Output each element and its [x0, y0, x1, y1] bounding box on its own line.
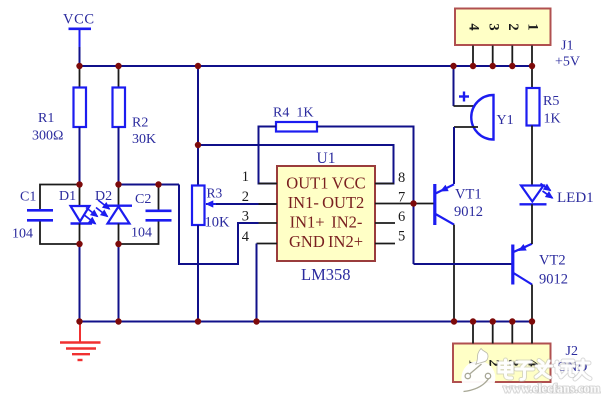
wire D2 node to ground bus — [118, 244, 120, 322]
wire C2 bottom lead — [119, 222, 159, 245]
capacitor C2 — [131, 192, 172, 241]
resistor R5 — [527, 88, 561, 127]
wire VT2 collector to ground bus — [531, 285, 533, 322]
svg-text:VT1: VT1 — [455, 187, 482, 203]
photodiode D1 — [59, 189, 98, 224]
svg-text:R3: R3 — [207, 186, 223, 201]
wire D1 bottom lead — [79, 224, 81, 245]
svg-text:30K: 30K — [132, 132, 156, 147]
wire VCC stem — [79, 47, 81, 66]
svg-text:300Ω: 300Ω — [32, 129, 63, 144]
wire J1 pin3 lead — [492, 46, 494, 67]
svg-text:10K: 10K — [205, 215, 231, 231]
wire D2 node to C2 top — [119, 184, 180, 186]
svg-text:www.elecfans.com: www.elecfans.com — [503, 382, 601, 396]
svg-text:U1: U1 — [317, 150, 336, 167]
svg-text:+5V: +5V — [555, 55, 580, 70]
wire D1 node to ground bus — [79, 244, 81, 322]
potentiometer R3 — [192, 186, 230, 231]
wire J2 pin4 lead — [531, 322, 533, 344]
svg-text:R1: R1 — [38, 111, 54, 126]
pin 3 stub — [259, 222, 278, 224]
svg-text:OUT1 VCC: OUT1 VCC — [286, 174, 365, 193]
wire C2 node down to IN1+ run — [179, 185, 259, 265]
svg-text:D2: D2 — [95, 189, 112, 204]
wire R4 right lead down to VT bases — [317, 127, 414, 265]
wire R2 bottom to node — [118, 127, 120, 185]
svg-text:5: 5 — [398, 229, 405, 245]
pin 6 stub — [375, 222, 395, 224]
svg-text:104: 104 — [131, 226, 152, 241]
resistor R1 — [32, 88, 86, 144]
wire R4 left lead to pin 1 — [259, 127, 278, 184]
svg-text:3: 3 — [242, 209, 249, 225]
pin 8 stub — [375, 183, 394, 185]
svg-text:J2: J2 — [566, 344, 578, 359]
svg-text:Y1: Y1 — [497, 113, 514, 128]
svg-text:1: 1 — [242, 169, 249, 185]
wire bus to Y1 top pin — [453, 66, 455, 106]
wire J1 pin1 to R5 — [531, 66, 533, 89]
wire GND pin 4 to ground bus — [256, 244, 258, 322]
wire D2 bottom lead — [118, 224, 120, 245]
wire VCC branch to pin 8 — [198, 145, 394, 184]
svg-text:LED1: LED1 — [557, 190, 594, 206]
svg-text:VCC: VCC — [63, 12, 95, 28]
watermark chinese text — [499, 360, 590, 380]
wire Y1 bottom pin to VT1 emitter — [454, 126, 478, 128]
svg-text:8: 8 — [398, 170, 405, 186]
VCC power symbol — [63, 12, 95, 48]
photodiode D2 — [95, 189, 132, 224]
svg-text:104: 104 — [12, 227, 33, 242]
wire R1 top lead — [79, 66, 81, 88]
svg-text:J1: J1 — [561, 39, 573, 54]
buzzer Y1 — [459, 92, 514, 140]
wire J2 pin2 lead — [492, 322, 494, 344]
svg-text:C2: C2 — [135, 192, 151, 207]
svg-text:4: 4 — [242, 229, 250, 245]
svg-text:6: 6 — [398, 209, 405, 225]
watermark logo circle — [461, 349, 495, 396]
wiper arrow R3 — [207, 203, 217, 205]
svg-text:VT2: VT2 — [539, 253, 566, 269]
op-amp U1 LM358 — [277, 150, 375, 284]
svg-text:7: 7 — [398, 190, 405, 206]
wire VT1 base — [414, 203, 434, 205]
wire VT2 base run — [414, 263, 512, 265]
watermark url text — [503, 382, 601, 396]
resistor R2 — [113, 88, 157, 148]
svg-text:R2: R2 — [132, 116, 148, 131]
pin 7 stub — [375, 203, 414, 205]
svg-text:1K: 1K — [544, 112, 561, 127]
wire R3 wiper to pin 2 — [206, 203, 277, 205]
resistor R4 — [273, 106, 317, 132]
pin 2 stub — [259, 203, 278, 205]
wire D1 top lead — [79, 185, 81, 207]
LED LED1 — [520, 184, 594, 207]
capacitor C1 — [12, 190, 53, 242]
svg-text:R4 1K: R4 1K — [273, 106, 313, 121]
wire J1 pin4 lead — [472, 46, 474, 67]
svg-text:9012: 9012 — [454, 204, 483, 220]
svg-text:IN1+ IN2-: IN1+ IN2- — [290, 213, 363, 232]
transistor VT2 — [513, 244, 568, 288]
svg-text:GND IN2+: GND IN2+ — [289, 232, 363, 251]
svg-text:C1: C1 — [20, 190, 36, 205]
pin 1 stub — [259, 183, 278, 185]
transistor VT1 — [435, 184, 483, 225]
wire VT1 collector to ground bus — [453, 225, 455, 322]
wire R5 bottom to LED1 — [531, 126, 533, 186]
wire ground bus — [80, 321, 533, 323]
wire J2 pin1 lead — [472, 322, 474, 344]
wire C1 bottom bracket — [40, 222, 80, 245]
wire C2 top lead — [158, 185, 160, 211]
wire R1 bottom to node — [79, 127, 81, 185]
wire J2 pin3 lead — [511, 322, 513, 344]
svg-text:2: 2 — [242, 189, 249, 205]
pin 4 stub — [257, 243, 278, 245]
wire top bus — [80, 65, 533, 67]
svg-text:4: 4 — [466, 23, 482, 30]
svg-text:IN1- OUT2: IN1- OUT2 — [288, 193, 365, 212]
svg-text:D1: D1 — [59, 189, 76, 204]
connector J1 — [455, 9, 580, 70]
svg-text:9012: 9012 — [539, 272, 568, 288]
wire VCC bus to R3 column — [197, 66, 199, 186]
wire D2 top lead — [118, 185, 120, 207]
svg-text:R5: R5 — [543, 94, 559, 109]
svg-text:3: 3 — [485, 23, 501, 30]
wire C1 top bracket — [40, 185, 80, 210]
connector J2 — [453, 344, 587, 383]
svg-text:1: 1 — [525, 23, 541, 30]
wire R3 bottom to ground bus — [197, 225, 199, 322]
wire R2 top lead — [118, 66, 120, 88]
wire J1 pin2 lead — [511, 46, 513, 67]
svg-text:2: 2 — [505, 23, 521, 30]
svg-text:LM358: LM358 — [301, 265, 351, 284]
pin 5 stub — [375, 243, 395, 245]
ground symbol — [60, 322, 101, 361]
wire LED1 to VT2 emitter — [531, 204, 533, 244]
wire J1 pin1 lead — [531, 46, 533, 67]
